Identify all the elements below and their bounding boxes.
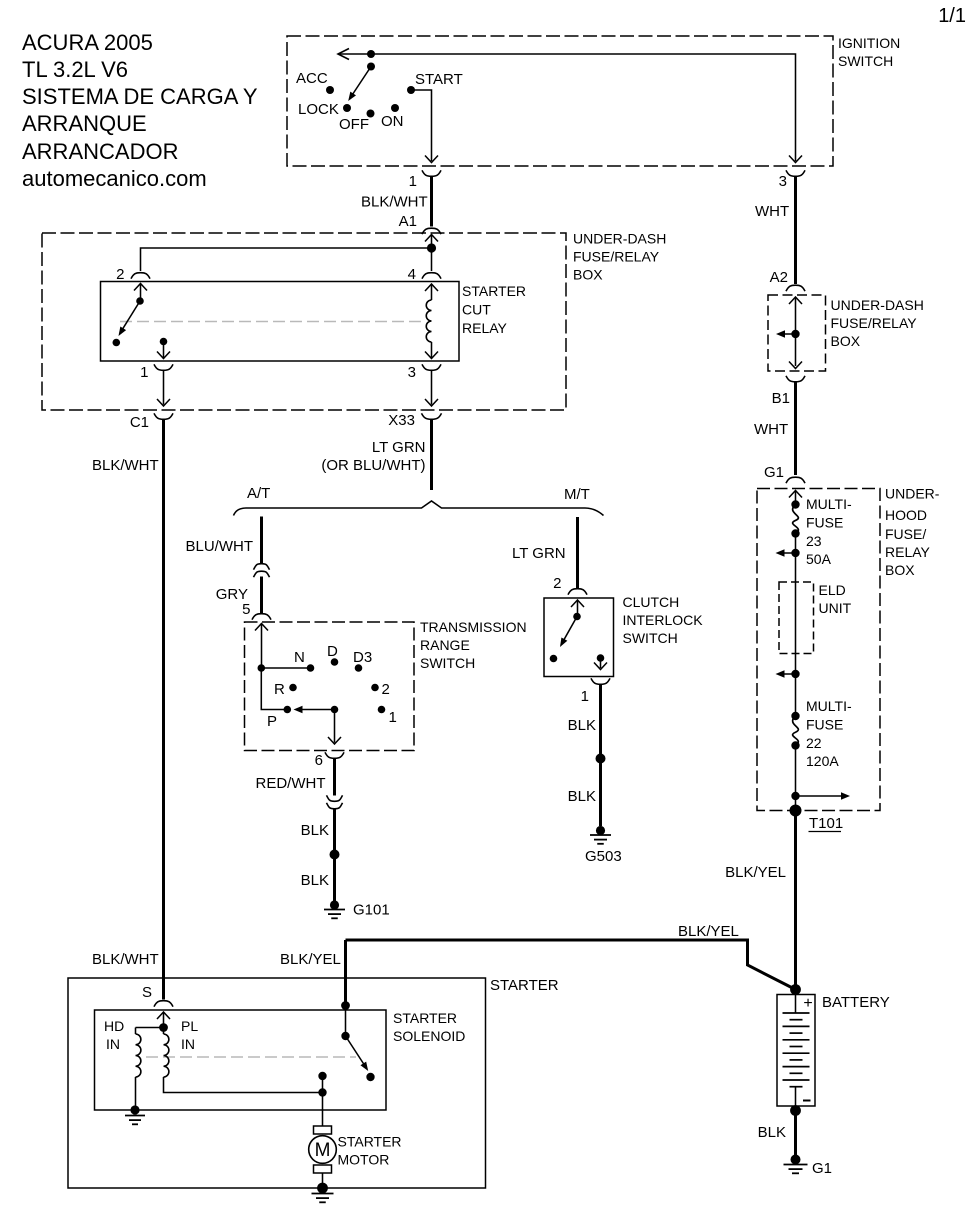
svg-text:BLK/YEL: BLK/YEL (725, 864, 786, 881)
A2 box junction dot (791, 330, 799, 338)
clutch contact dot out (597, 654, 605, 662)
battery bottom stub (795, 1087, 797, 1106)
svg-text:4: 4 (408, 266, 416, 283)
svg-text:SWITCH: SWITCH (838, 53, 893, 69)
under-hood fuse/relay box (757, 489, 880, 811)
svg-text:FUSE/RELAY: FUSE/RELAY (831, 315, 918, 331)
svg-text:INTERLOCK: INTERLOCK (623, 612, 704, 628)
tap arrow 1 (776, 549, 796, 557)
LOCK contact dot (343, 104, 351, 112)
under-dash fuse/relay box (42, 233, 566, 410)
svg-text:automecanico.com: automecanico.com (22, 166, 207, 191)
svg-text:D: D (327, 643, 338, 660)
multi-fuse 22 element (793, 716, 799, 746)
svg-text:OFF: OFF (339, 116, 369, 133)
wire feed to contact (345, 1006, 347, 1037)
pin 2 connector (131, 273, 150, 279)
ACC contact dot (326, 86, 334, 94)
svg-text:RELAY: RELAY (885, 544, 931, 560)
svg-text:S: S (142, 984, 152, 1001)
svg-text:RED/WHT: RED/WHT (256, 775, 326, 792)
wire LT GRN from X33 (430, 419, 433, 490)
clutch interlock switch label (623, 594, 704, 646)
svg-text:ON: ON (381, 113, 404, 130)
BLK label upper (A/T) (301, 822, 329, 839)
A/T label (247, 485, 270, 502)
wire motor to ground (322, 1173, 324, 1184)
relay coil entry arrow (425, 284, 438, 291)
svg-text:1: 1 (581, 688, 589, 705)
under-hood entry arrow (789, 491, 802, 505)
S label (142, 984, 152, 1001)
svg-text:X33: X33 (388, 412, 415, 429)
relay contact dot open (113, 339, 121, 347)
svg-text:FUSE: FUSE (806, 515, 843, 531)
battery plates (783, 1013, 810, 1087)
wire to HD coil (136, 1028, 164, 1035)
tap dot 3 (791, 792, 799, 800)
relay pin2 entry arrow (134, 284, 147, 301)
tap dot 2 (791, 670, 799, 678)
svg-text:IGNITION: IGNITION (838, 35, 900, 51)
svg-text:UNDER-DASH: UNDER-DASH (573, 231, 666, 247)
solenoid motor junction dot (318, 1088, 326, 1096)
1 position label (389, 709, 397, 726)
wire fuse22 to T101 (795, 746, 797, 811)
svg-text:RELAY: RELAY (462, 320, 508, 336)
under-dash fuse/relay box (right) (768, 295, 826, 371)
starter solenoid box (95, 1010, 387, 1110)
svg-text:BLK: BLK (301, 872, 329, 889)
BLK/WHT label (361, 194, 428, 211)
ground G1 (784, 1155, 808, 1174)
PL winding coil (164, 1028, 169, 1078)
pin 3 connector (786, 170, 805, 176)
svg-text:UNIT: UNIT (819, 600, 852, 616)
START contact dot (407, 86, 415, 94)
wire branch to relay pin 2 (141, 248, 432, 271)
transmission range switch box (245, 622, 415, 751)
D3 contact dot (355, 664, 363, 672)
pin 4 connector (422, 273, 441, 279)
pin 5 entry arrow (255, 624, 268, 669)
battery positive terminal dot (790, 984, 801, 995)
wire WHT B1 to G1 (794, 382, 797, 476)
battery minus sign (803, 1100, 811, 1102)
svg-text:1: 1 (389, 709, 397, 726)
connector B1 (786, 376, 805, 382)
relay coil wire top (431, 284, 433, 300)
multi-fuse 22 label (806, 698, 852, 769)
wire HD coil to ground (135, 1077, 137, 1106)
solenoid link dashed line (146, 1056, 356, 1058)
svg-text:G503: G503 (585, 848, 622, 865)
wire fuse23 to tap (795, 534, 797, 554)
G1 ground label (812, 1160, 832, 1177)
OFF label (339, 116, 369, 133)
C1 label (130, 414, 149, 431)
tap arrow 3 (right) (796, 792, 851, 800)
pin 2 label (clutch) (553, 575, 561, 592)
wire RED/WHT (333, 758, 336, 796)
X33 label (388, 412, 415, 429)
A2 box exit arrow (789, 362, 802, 369)
wire BLK/YEL T101 to battery (794, 811, 797, 990)
wire PL coil to motor node (164, 1077, 323, 1093)
svg-text:UNDER-: UNDER- (885, 486, 940, 502)
ignition switch box (287, 36, 833, 166)
arrow into box at A1 (425, 235, 438, 249)
BLK label upper (M/T) (568, 717, 596, 734)
wire BLK/WHT C1 to starter S (162, 419, 165, 1000)
starter motor brush top (314, 1126, 332, 1134)
pin 1 label (clutch) (581, 688, 589, 705)
BLK label lower (A/T) (301, 872, 329, 889)
wire WHT pin3 to A2 (794, 176, 797, 284)
wire BLU/WHT (260, 517, 263, 565)
wire BLK/YEL into starter (344, 940, 347, 1006)
BLK/YEL label (starter) (280, 951, 341, 968)
relay wire contact to pin1 + arrow (157, 342, 170, 359)
ignition switch label (838, 35, 900, 69)
solenoid feed dot (BLK/YEL) (341, 1001, 350, 1010)
PL IN label (181, 1018, 198, 1052)
multi-fuse 23 element (793, 505, 799, 534)
solenoid coil junction dot (159, 1023, 168, 1032)
P label (267, 713, 277, 730)
svg-text:120A: 120A (806, 753, 839, 769)
pin 1 label (409, 173, 417, 190)
connector S (154, 1001, 173, 1007)
wire BLK lower (M/T) (599, 759, 602, 827)
N label (294, 649, 305, 666)
svg-text:BLK/YEL: BLK/YEL (280, 951, 341, 968)
pin 2 label (116, 266, 124, 283)
wire BLK battery to ground (794, 1112, 797, 1155)
svg-text:C1: C1 (130, 414, 149, 431)
R label (274, 681, 285, 698)
svg-text:D3: D3 (353, 649, 372, 666)
connector G1 (786, 477, 805, 483)
svg-text:BLK: BLK (568, 717, 596, 734)
splice dot (M/T BLK) (596, 754, 606, 764)
svg-text:MULTI-: MULTI- (806, 698, 852, 714)
svg-text:BLU/WHT: BLU/WHT (186, 538, 254, 555)
wire START to pin 1 (411, 90, 432, 161)
A2 entry arrow (789, 297, 802, 366)
wire to starter motor (322, 1093, 324, 1127)
svg-text:T101: T101 (809, 815, 843, 832)
battery plus sign (803, 995, 812, 1012)
ACC label (296, 70, 328, 87)
svg-text:LOCK: LOCK (298, 101, 339, 118)
relay coil wire bottom + arrow (425, 342, 438, 359)
svg-text:CUT: CUT (462, 302, 491, 318)
T101 label (809, 815, 844, 832)
clutch pivot dot (573, 613, 581, 621)
in-line connector RED/WHT (327, 795, 343, 809)
svg-text:BLK: BLK (758, 1124, 786, 1141)
ignition switch lever (348, 67, 371, 102)
svg-text:ACC: ACC (296, 70, 328, 87)
connector X33 (422, 413, 442, 419)
pin 1 connector (clutch) (591, 678, 610, 684)
tap dot 1 (791, 549, 799, 557)
ground G101 (324, 900, 345, 918)
HD winding coil (136, 1034, 141, 1077)
svg-text:+: + (803, 995, 812, 1012)
wire BLK lower (A/T) (333, 855, 336, 902)
svg-text:BOX: BOX (831, 333, 861, 349)
P contact dot (284, 706, 292, 714)
multi-fuse 23 label (806, 496, 852, 567)
BLK/WHT label upper (92, 457, 159, 474)
svg-text:BLK/YEL: BLK/YEL (678, 923, 739, 940)
svg-text:SOLENOID: SOLENOID (393, 1028, 465, 1044)
svg-text:SWITCH: SWITCH (623, 630, 678, 646)
svg-text:HD: HD (104, 1018, 124, 1034)
svg-text:N: N (294, 649, 305, 666)
solenoid case ground (HD) (125, 1105, 145, 1124)
D contact dot (331, 658, 339, 666)
arrow out pin 3 (789, 156, 802, 163)
under-hood box label (885, 486, 940, 579)
R contact dot (289, 684, 297, 692)
wire LT GRN (M/T) (576, 517, 579, 588)
ELD unit box (779, 582, 814, 654)
svg-text:G1: G1 (764, 464, 784, 481)
pin 1 connector (422, 170, 441, 176)
svg-text:FUSE/RELAY: FUSE/RELAY (573, 249, 660, 265)
BLK/WHT label lower (92, 951, 159, 968)
wire BLK/WHT pin1 to A1 (430, 176, 433, 227)
starter motor ground (312, 1183, 334, 1203)
1 contact dot (378, 706, 386, 714)
clutch interlock switch box (544, 598, 614, 677)
BATTERY label (822, 994, 890, 1011)
wire center to pin 6 + arrow (328, 710, 341, 745)
svg-text:STARTER: STARTER (338, 1134, 402, 1150)
starter solenoid label (393, 1010, 465, 1044)
starter cut relay label (462, 283, 526, 336)
2 position label (382, 681, 390, 698)
connector A1 (422, 228, 441, 234)
G1 connector label (764, 464, 784, 481)
A2 box tap arrow (776, 330, 796, 338)
svg-text:6: 6 (315, 752, 323, 769)
solenoid contact dot (motor side) (318, 1072, 326, 1080)
svg-text:3: 3 (408, 364, 416, 381)
svg-text:23: 23 (806, 533, 822, 549)
pin 5 connector (252, 614, 271, 620)
relay coil (426, 300, 431, 342)
RED/WHT label (256, 775, 326, 792)
svg-text:1: 1 (140, 364, 148, 381)
G101 label (353, 902, 390, 919)
trs wiper arrow to P (294, 706, 335, 714)
svg-text:BOX: BOX (885, 562, 915, 578)
svg-text:50A: 50A (806, 551, 832, 567)
svg-text:SISTEMA DE CARGA Y: SISTEMA DE CARGA Y (22, 84, 258, 109)
svg-text:TRANSMISSION: TRANSMISSION (420, 619, 527, 635)
svg-text:BOX: BOX (573, 267, 603, 283)
multi-fuse 22 top dot (791, 712, 799, 720)
terminal T101 dot (790, 805, 802, 817)
svg-text:A1: A1 (399, 213, 417, 230)
svg-text:1: 1 (409, 173, 417, 190)
svg-text:2: 2 (382, 681, 390, 698)
svg-text:B1: B1 (772, 390, 790, 407)
trs center dot (331, 706, 339, 714)
svg-text:FUSE/: FUSE/ (885, 526, 926, 542)
svg-text:STARTER: STARTER (393, 1010, 457, 1026)
title text block (22, 30, 258, 191)
clutch lever (560, 617, 577, 648)
multi-fuse 22 bottom dot (791, 741, 799, 749)
ignition rotor pivot dot (367, 63, 375, 71)
svg-text:HOOD: HOOD (885, 507, 927, 523)
solenoid switch pivot dot (341, 1032, 349, 1040)
svg-text:TL 3.2L V6: TL 3.2L V6 (22, 57, 128, 82)
svg-text:3: 3 (779, 173, 787, 190)
svg-text:BLK: BLK (301, 822, 329, 839)
ON contact dot (391, 104, 399, 112)
connector A2 (786, 285, 805, 291)
svg-text:R: R (274, 681, 285, 698)
tap arrow 2 (776, 670, 796, 678)
under-dash right label (831, 297, 924, 349)
BLK label lower (M/T) (568, 788, 596, 805)
pin 4 label (408, 266, 416, 283)
2 contact dot (371, 684, 379, 692)
svg-text:RANGE: RANGE (420, 637, 470, 653)
wire relay pin1 to C1 (157, 370, 170, 406)
wire contact to junction (322, 1076, 324, 1093)
under-dash box label (573, 231, 666, 283)
svg-text:2: 2 (553, 575, 561, 592)
starter motor label (338, 1134, 402, 1168)
relay switch pivot dot (136, 297, 144, 305)
svg-text:UNDER-DASH: UNDER-DASH (831, 297, 924, 313)
pin 1 connector (relay) (154, 364, 173, 370)
ignition rotor dot on wire (367, 50, 375, 58)
G503 label (585, 848, 622, 865)
A/T M/T selector bracket (234, 501, 604, 516)
svg-text:M/T: M/T (564, 486, 590, 503)
svg-text:WHT: WHT (754, 421, 788, 438)
wire tap2 to fuse22 (795, 674, 797, 716)
starter motor body (309, 1136, 337, 1164)
starter box (68, 978, 486, 1188)
svg-text:FUSE: FUSE (806, 717, 843, 733)
splice dot (A/T BLK) (330, 850, 340, 860)
svg-text:BLK/WHT: BLK/WHT (92, 951, 159, 968)
battery case (777, 995, 815, 1107)
svg-text:ACURA 2005: ACURA 2005 (22, 30, 153, 55)
OFF contact dot (367, 110, 375, 118)
relay contact dot to pin 1 (160, 338, 168, 346)
BLU/WHT label (186, 538, 254, 555)
svg-text:22: 22 (806, 735, 822, 751)
starter label (490, 977, 559, 994)
START label (415, 71, 463, 88)
N contact dot (307, 664, 315, 672)
wire relay pin3 to X33 (425, 370, 438, 406)
multi-fuse 23 top dot (791, 500, 799, 508)
pin 2 connector (clutch) (568, 589, 587, 595)
svg-text:WHT: WHT (755, 203, 789, 220)
A1 label (399, 213, 417, 230)
svg-text:LT GRN: LT GRN (512, 545, 566, 562)
wire ignition feed (top horizontal + right drop) (338, 54, 796, 161)
svg-text:G1: G1 (812, 1160, 832, 1177)
solenoid switch lever (346, 1036, 369, 1071)
trs junction dot (258, 664, 266, 672)
svg-text:P: P (267, 713, 277, 730)
connector C1 (154, 413, 173, 419)
svg-text:M: M (315, 1140, 331, 1161)
svg-text:ARRANQUE: ARRANQUE (22, 111, 147, 136)
battery negative terminal dot (790, 1105, 801, 1116)
wire GRY (260, 577, 263, 614)
LT GRN label (M/T) (512, 545, 566, 562)
wire BLK upper (A/T) (333, 809, 336, 855)
pin 3 label (relay) (408, 364, 416, 381)
BLK/YEL label (horizontal) (678, 923, 739, 940)
svg-text:MULTI-: MULTI- (806, 496, 852, 512)
M/T label (564, 486, 590, 503)
relay switch lever (119, 301, 141, 336)
ON label (381, 113, 404, 130)
junction node A1 branch (427, 243, 436, 252)
BLK label (battery) (758, 1124, 786, 1141)
svg-text:STARTER: STARTER (490, 977, 559, 994)
svg-text:STARTER: STARTER (462, 283, 526, 299)
LT GRN label (372, 439, 426, 456)
WHT label (755, 203, 789, 220)
svg-text:CLUTCH: CLUTCH (623, 594, 680, 610)
svg-text:START: START (415, 71, 463, 88)
relay link dashed line (120, 321, 426, 323)
D3 label (353, 649, 372, 666)
BLK/YEL label (battery feed) (725, 864, 786, 881)
svg-text:A2: A2 (770, 269, 788, 286)
WHT label lower (754, 421, 788, 438)
starter motor M (315, 1140, 331, 1161)
ground G503 (590, 826, 611, 844)
svg-text:BLK: BLK (568, 788, 596, 805)
svg-text:MOTOR: MOTOR (338, 1152, 390, 1168)
B1 label (772, 390, 790, 407)
wire through ELD (795, 553, 797, 674)
A2 label (770, 269, 788, 286)
pin 1 label (relay) (140, 364, 148, 381)
in-line connector A/T (254, 564, 270, 578)
svg-text:A/T: A/T (247, 485, 270, 502)
svg-text:5: 5 (242, 601, 250, 618)
starter cut relay box (101, 282, 460, 362)
starter motor brush bottom (314, 1165, 332, 1173)
arrow into ACC feed (338, 49, 349, 60)
wire down to relay pin 4 (431, 248, 433, 271)
ELD unit label (819, 582, 852, 616)
svg-text:G101: G101 (353, 902, 390, 919)
pin 3 label (779, 173, 787, 190)
multi-fuse 23 bottom dot (791, 529, 799, 537)
HD IN label (104, 1018, 124, 1052)
LOCK label (298, 101, 339, 118)
clutch contact dot open (550, 655, 558, 663)
